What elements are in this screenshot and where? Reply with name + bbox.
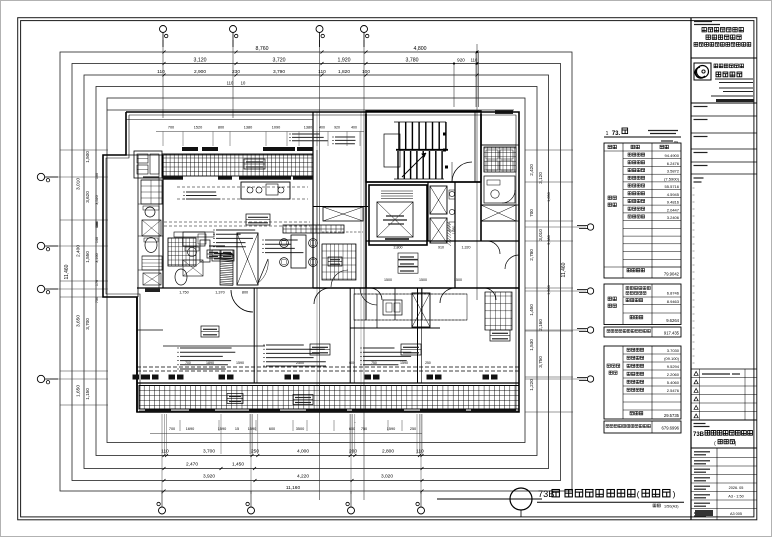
svg-text:2,780: 2,780 bbox=[529, 249, 534, 261]
svg-text:800: 800 bbox=[242, 291, 248, 295]
svg-text:400: 400 bbox=[351, 126, 357, 130]
svg-text:1,920: 1,920 bbox=[338, 58, 351, 64]
svg-text:3,720: 3,720 bbox=[273, 58, 286, 64]
svg-text:1: 1 bbox=[606, 131, 609, 137]
svg-text:1500: 1500 bbox=[384, 278, 392, 282]
svg-text:15: 15 bbox=[235, 427, 239, 431]
svg-text:11,460: 11,460 bbox=[64, 264, 70, 279]
svg-text:3,920: 3,920 bbox=[203, 474, 215, 480]
svg-text:): ) bbox=[673, 489, 676, 499]
svg-text:1380: 1380 bbox=[244, 126, 252, 130]
svg-text:920: 920 bbox=[457, 58, 465, 63]
svg-text:3,750: 3,750 bbox=[538, 356, 543, 368]
svg-text:A3 005: A3 005 bbox=[730, 512, 742, 516]
svg-text:200: 200 bbox=[349, 449, 357, 455]
svg-text:679.6996: 679.6996 bbox=[662, 426, 680, 431]
svg-text:110: 110 bbox=[157, 69, 165, 75]
svg-text:920: 920 bbox=[334, 126, 340, 130]
svg-text:1590: 1590 bbox=[218, 427, 226, 431]
svg-text:1,050: 1,050 bbox=[547, 192, 551, 202]
svg-text:2,900: 2,900 bbox=[194, 69, 206, 75]
svg-text:1,820: 1,820 bbox=[338, 69, 350, 75]
svg-text:11,460: 11,460 bbox=[561, 262, 567, 277]
svg-text:1,550: 1,550 bbox=[85, 251, 90, 263]
svg-text:73B: 73B bbox=[693, 432, 705, 438]
svg-text:700: 700 bbox=[168, 126, 174, 130]
svg-text:100: 100 bbox=[95, 173, 99, 179]
svg-text:1690: 1690 bbox=[186, 427, 194, 431]
svg-text:8,760: 8,760 bbox=[256, 46, 269, 52]
svg-text:1,500: 1,500 bbox=[547, 285, 551, 295]
svg-text:3,160: 3,160 bbox=[95, 253, 99, 263]
svg-text:(: ( bbox=[637, 489, 640, 499]
svg-text:(7.5900): (7.5900) bbox=[664, 176, 680, 181]
svg-text:1090: 1090 bbox=[272, 126, 280, 130]
svg-text:600: 600 bbox=[349, 427, 355, 431]
svg-text:9.4816: 9.4816 bbox=[667, 200, 680, 205]
svg-text:2,420: 2,420 bbox=[529, 164, 534, 176]
svg-text:73.: 73. bbox=[612, 131, 621, 137]
svg-text:250: 250 bbox=[251, 449, 259, 455]
svg-text:1380: 1380 bbox=[304, 126, 312, 130]
svg-text:2,800: 2,800 bbox=[394, 246, 403, 250]
svg-text:100: 100 bbox=[362, 69, 370, 75]
svg-text:1,370: 1,370 bbox=[215, 291, 225, 295]
svg-text:700: 700 bbox=[529, 209, 534, 217]
svg-text:6.2476: 6.2476 bbox=[667, 161, 680, 166]
svg-text:600: 600 bbox=[349, 361, 355, 365]
svg-text:4,000: 4,000 bbox=[297, 449, 309, 455]
svg-text:910: 910 bbox=[438, 246, 444, 250]
svg-text:3,650: 3,650 bbox=[76, 315, 82, 327]
svg-text:2.0447: 2.0447 bbox=[667, 207, 680, 212]
svg-text:600: 600 bbox=[269, 427, 275, 431]
svg-text:750: 750 bbox=[361, 427, 367, 431]
svg-text:3,700: 3,700 bbox=[85, 318, 90, 330]
svg-text:5.4060: 5.4060 bbox=[667, 380, 680, 385]
svg-text:10: 10 bbox=[241, 81, 246, 86]
svg-text:110: 110 bbox=[416, 449, 424, 455]
svg-text:6.8746: 6.8746 bbox=[667, 291, 680, 296]
svg-text:1500: 1500 bbox=[454, 278, 462, 282]
svg-text:55.5716: 55.5716 bbox=[665, 184, 680, 189]
svg-text:110: 110 bbox=[471, 58, 478, 63]
svg-text:3.2406: 3.2406 bbox=[667, 215, 680, 220]
svg-text:1,320: 1,320 bbox=[462, 246, 471, 250]
svg-text:3,010: 3,010 bbox=[538, 229, 543, 241]
svg-text:1,530: 1,530 bbox=[529, 339, 534, 351]
svg-text:1,450: 1,450 bbox=[232, 462, 244, 468]
svg-text:1590: 1590 bbox=[400, 361, 408, 365]
svg-text:1590: 1590 bbox=[387, 427, 395, 431]
svg-text:9.5294: 9.5294 bbox=[667, 364, 680, 369]
svg-text:1,650: 1,650 bbox=[76, 385, 82, 397]
svg-text:750: 750 bbox=[95, 297, 99, 303]
svg-text:1,050: 1,050 bbox=[452, 226, 456, 235]
svg-text:3.7030: 3.7030 bbox=[667, 348, 680, 353]
svg-text:2,800: 2,800 bbox=[382, 449, 394, 455]
svg-text:1500: 1500 bbox=[419, 278, 427, 282]
svg-text:8.9463: 8.9463 bbox=[667, 299, 680, 304]
svg-text:800: 800 bbox=[218, 126, 224, 130]
svg-text:1,220: 1,220 bbox=[529, 379, 534, 391]
svg-text:A3 - 1:50: A3 - 1:50 bbox=[728, 495, 743, 499]
svg-text:4,800: 4,800 bbox=[414, 46, 427, 52]
svg-text:2.2060: 2.2060 bbox=[667, 372, 680, 377]
svg-text:1,750: 1,750 bbox=[179, 291, 189, 295]
svg-text:700: 700 bbox=[169, 427, 175, 431]
svg-text:4,220: 4,220 bbox=[297, 474, 309, 480]
svg-text:110: 110 bbox=[318, 69, 326, 75]
svg-text:9,380: 9,380 bbox=[547, 235, 551, 245]
svg-text:1,500: 1,500 bbox=[85, 151, 90, 163]
svg-text:110: 110 bbox=[227, 81, 234, 86]
svg-text:3,520: 3,520 bbox=[95, 195, 99, 205]
svg-text:140: 140 bbox=[95, 237, 99, 243]
svg-text:250: 250 bbox=[410, 427, 416, 431]
svg-text:250: 250 bbox=[425, 361, 431, 365]
svg-text:3,780: 3,780 bbox=[406, 58, 419, 64]
svg-text:3,020: 3,020 bbox=[381, 474, 393, 480]
svg-text:79.9042: 79.9042 bbox=[664, 272, 680, 277]
svg-text:3,790: 3,790 bbox=[273, 69, 285, 75]
svg-text:2.5476: 2.5476 bbox=[667, 388, 680, 393]
svg-text:9.6264: 9.6264 bbox=[666, 318, 679, 323]
svg-text:1,150: 1,150 bbox=[85, 388, 90, 400]
svg-text:94.4900: 94.4900 bbox=[665, 153, 680, 158]
svg-text:2,470: 2,470 bbox=[186, 462, 198, 468]
svg-text:3500: 3500 bbox=[296, 427, 304, 431]
svg-text:3,010: 3,010 bbox=[76, 178, 82, 190]
svg-text:2,400: 2,400 bbox=[76, 245, 82, 257]
svg-text:4.5945: 4.5945 bbox=[667, 192, 680, 197]
svg-text:~: ~ bbox=[354, 420, 356, 424]
svg-text:1590: 1590 bbox=[236, 361, 244, 365]
svg-text:400: 400 bbox=[319, 126, 325, 130]
svg-text:917.435: 917.435 bbox=[664, 331, 680, 336]
svg-text:3.5872: 3.5872 bbox=[667, 169, 680, 174]
svg-text:600: 600 bbox=[95, 222, 99, 228]
svg-text:11,160: 11,160 bbox=[286, 485, 301, 491]
svg-text:29.5735: 29.5735 bbox=[664, 413, 680, 418]
svg-text:110: 110 bbox=[161, 449, 169, 455]
svg-text:(09.100): (09.100) bbox=[664, 356, 680, 361]
svg-text:3,620: 3,620 bbox=[85, 191, 90, 203]
svg-text:1520: 1520 bbox=[194, 126, 202, 130]
svg-text:1590: 1590 bbox=[248, 427, 256, 431]
svg-text:3,120: 3,120 bbox=[194, 58, 207, 64]
svg-text:2,160: 2,160 bbox=[538, 319, 543, 331]
svg-text:1,450: 1,450 bbox=[529, 304, 534, 316]
svg-text:1/50(A3): 1/50(A3) bbox=[664, 505, 679, 509]
svg-text:3,700: 3,700 bbox=[203, 449, 215, 455]
svg-text:230: 230 bbox=[232, 69, 240, 75]
svg-text:2026. 05: 2026. 05 bbox=[729, 486, 744, 490]
